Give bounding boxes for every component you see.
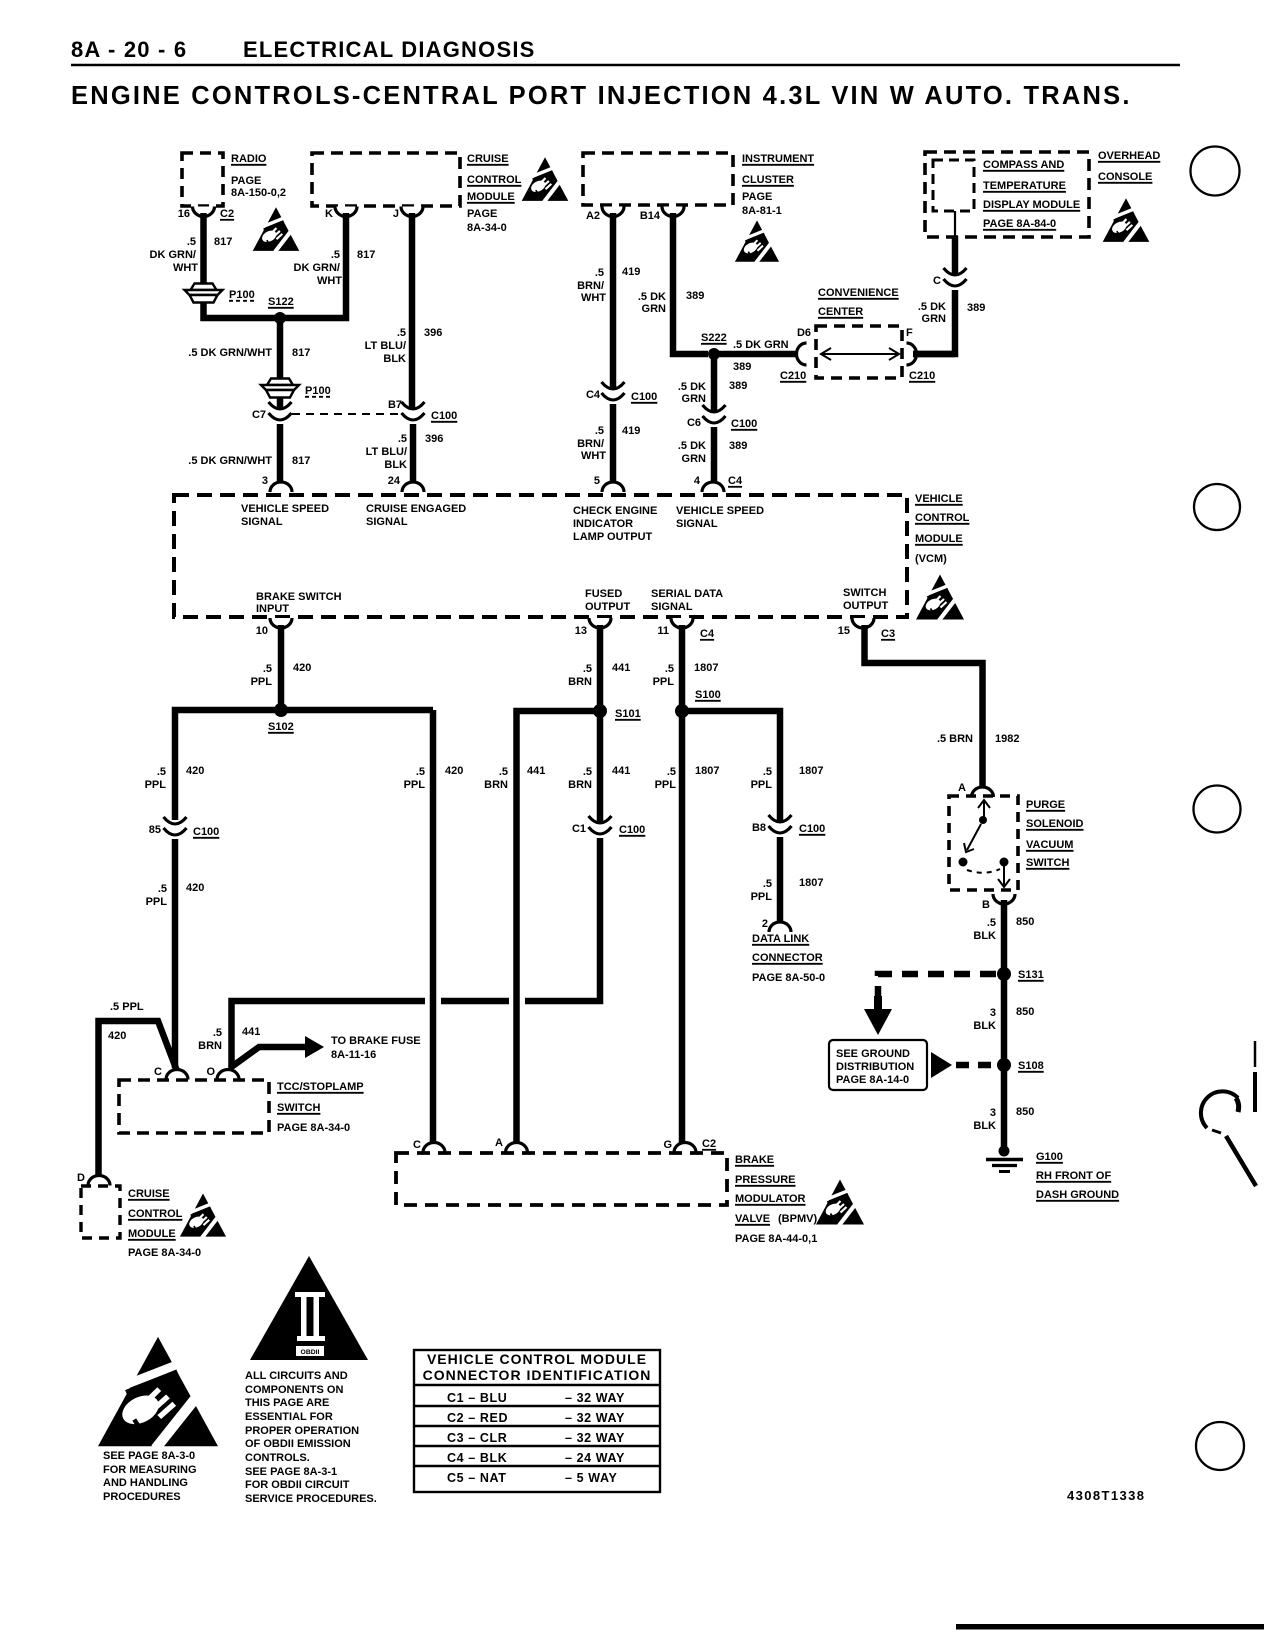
- wire label .5 PPL (S102 right leg): [404, 766, 426, 791]
- svg-text:PPL: PPL: [404, 779, 426, 791]
- svg-text:3: 3: [990, 1007, 996, 1019]
- VCM pin 15 cup: [852, 618, 874, 628]
- svg-text:.5: .5: [583, 766, 592, 778]
- table title: [423, 1351, 652, 1383]
- svg-text:B7: B7: [388, 399, 402, 411]
- svg-text:16: 16: [178, 208, 190, 220]
- svg-text:10: 10: [256, 625, 268, 637]
- svg-text:DK GRN/: DK GRN/: [150, 249, 196, 261]
- svg-text:MODULATOR: MODULATOR: [735, 1193, 806, 1205]
- svg-text:2: 2: [762, 918, 768, 930]
- svg-text:SOLENOID: SOLENOID: [1026, 818, 1084, 830]
- cruise control module box (top): [312, 153, 460, 206]
- svg-text:420: 420: [186, 765, 204, 777]
- svg-text:C7: C7: [252, 409, 266, 421]
- svg-text:BLK: BLK: [383, 353, 406, 365]
- svg-text:15: 15: [838, 625, 850, 637]
- wire label .5 DK GRN/WHT (pin K drop): [294, 249, 343, 287]
- svg-text:BLK: BLK: [973, 1020, 996, 1032]
- svg-text:BLK: BLK: [973, 930, 996, 942]
- punch hole circle 3: [1194, 786, 1241, 833]
- VCM label fused output: [585, 588, 631, 613]
- dashed branch from S131 to ground distribution arrow: [878, 974, 996, 1000]
- svg-text:– 5 WAY: – 5 WAY: [565, 1471, 617, 1485]
- svg-text:850: 850: [1016, 1006, 1034, 1018]
- svg-text:C1: C1: [572, 823, 586, 835]
- wire label .5 BRN/WHT (above pin 5): [577, 425, 606, 462]
- svg-text:C: C: [154, 1066, 162, 1078]
- purge switch internal left contact dot: [959, 858, 968, 867]
- svg-text:CRUISE: CRUISE: [467, 153, 509, 165]
- wire from compass module to connector C: [952, 236, 959, 276]
- svg-text:CRUISE: CRUISE: [128, 1188, 170, 1200]
- svg-text:DASH GROUND: DASH GROUND: [1036, 1189, 1119, 1201]
- wire 396 from pin J down to B7: [409, 213, 416, 410]
- BPMV labels: [735, 1154, 817, 1245]
- wire 1807 from S100 down to BPMV pin G: [679, 711, 686, 1145]
- wire 441 from VCM pin 13 to splice S101: [597, 625, 604, 711]
- dashed link from callout to S108: [956, 1062, 996, 1069]
- ESD symbol near BPMV: [816, 1180, 864, 1226]
- svg-text:850: 850: [1016, 1106, 1034, 1118]
- pin B14 connector cup (instrument cluster): [662, 207, 684, 217]
- svg-text:PAGE 8A-50-0: PAGE 8A-50-0: [752, 972, 825, 984]
- wire label .5 PPL (S100 down leg): [655, 766, 677, 791]
- svg-text:SWITCH: SWITCH: [277, 1102, 320, 1114]
- svg-text:C2 – RED: C2 – RED: [447, 1411, 508, 1425]
- svg-text:FOR OBDII CIRCUIT: FOR OBDII CIRCUIT: [245, 1479, 350, 1491]
- pin D6 connector cup (convenience center): [797, 343, 807, 365]
- S100 right leg to data link drop: [682, 711, 780, 823]
- svg-text:.5: .5: [499, 766, 508, 778]
- svg-text:.5: .5: [667, 766, 676, 778]
- purge switch internal upper contact dot: [979, 816, 987, 824]
- svg-text:MODULE: MODULE: [915, 533, 963, 545]
- svg-text:BLK: BLK: [384, 459, 407, 471]
- pin F connector cup (convenience center): [907, 343, 917, 365]
- ESD symbol below instrument cluster: [735, 220, 779, 262]
- svg-text:C210: C210: [780, 370, 806, 382]
- svg-text:C100: C100: [193, 826, 219, 838]
- wire 850 from S108 to ground G100: [1001, 1065, 1008, 1150]
- svg-text:389: 389: [729, 440, 747, 452]
- table row C1: [447, 1391, 625, 1405]
- TCC/stoplamp switch labels: [277, 1081, 364, 1134]
- data link connector pin 2 bell: [769, 922, 791, 932]
- VCM pin 5 bell: [602, 482, 624, 492]
- svg-text:C100: C100: [431, 410, 457, 422]
- ESD symbol in VCM: [916, 575, 964, 621]
- wire 817 from S122 down to P100 (second): [277, 318, 284, 379]
- svg-text:CONTROL: CONTROL: [128, 1208, 183, 1220]
- BPMV pin G bell: [674, 1143, 696, 1153]
- svg-text:WHT: WHT: [581, 292, 606, 304]
- svg-text:GRN: GRN: [922, 313, 947, 325]
- svg-text:PPL: PPL: [655, 779, 677, 791]
- table row C5: [447, 1471, 617, 1485]
- wire 396 from B7 to VCM pin 24: [410, 424, 417, 486]
- svg-text:BRN: BRN: [198, 1040, 222, 1052]
- svg-text:PPL: PPL: [653, 676, 675, 688]
- svg-text:B8: B8: [752, 822, 766, 834]
- svg-text:PPL: PPL: [251, 676, 273, 688]
- svg-text:85: 85: [149, 824, 161, 836]
- purge switch internal dashed throw arc: [967, 869, 1000, 873]
- svg-text:OVERHEAD: OVERHEAD: [1098, 150, 1160, 162]
- wire 441 horizontal hop segment 3 and drop to pin O: [232, 1001, 426, 1068]
- svg-text:VACUUM: VACUUM: [1026, 839, 1073, 851]
- TCC/stoplamp switch box: [119, 1080, 269, 1133]
- svg-text:.5 DK: .5 DK: [678, 381, 706, 393]
- svg-text:C2: C2: [220, 208, 234, 220]
- svg-text:LT BLU/: LT BLU/: [365, 340, 406, 352]
- wire 419 from C4 to VCM pin 5: [610, 404, 617, 486]
- svg-text:S122: S122: [268, 296, 294, 308]
- svg-text:441: 441: [527, 765, 545, 777]
- svg-text:PAGE: PAGE: [467, 208, 497, 220]
- TCC pin C bell: [166, 1070, 188, 1080]
- wire 389 from S222 to convenience center pin D6: [714, 351, 800, 358]
- svg-text:PAGE 8A-34-0: PAGE 8A-34-0: [128, 1247, 201, 1259]
- compass module labels: [983, 159, 1080, 230]
- pass-through grommet P100 (second): [261, 379, 299, 398]
- pin J connector cup (cruise module): [401, 207, 423, 217]
- svg-text:VALVE: VALVE: [735, 1213, 770, 1225]
- wire 389 from connector C down to F corner: [913, 290, 955, 354]
- svg-text:8A-81-1: 8A-81-1: [742, 205, 782, 217]
- wire 389 from S222 down to C6: [711, 354, 718, 413]
- svg-text:S131: S131: [1018, 969, 1044, 981]
- svg-text:TEMPERATURE: TEMPERATURE: [983, 180, 1066, 192]
- VCM label check engine indicator lamp output: [573, 505, 657, 543]
- svg-text:VEHICLE CONTROL MODULE: VEHICLE CONTROL MODULE: [427, 1351, 647, 1367]
- splice S122: [274, 312, 286, 324]
- purge switch pin A bell: [972, 787, 994, 797]
- svg-text:WHT: WHT: [173, 262, 198, 274]
- svg-text:C2: C2: [702, 1138, 716, 1150]
- svg-text:.5: .5: [595, 267, 604, 279]
- svg-text:CONSOLE: CONSOLE: [1098, 171, 1152, 183]
- wire 420 branch from TCC pin C to cruise module pin D: [99, 1021, 178, 1178]
- wire label .5 PPL (pin 10 drop): [251, 663, 273, 688]
- svg-text:C3: C3: [881, 628, 895, 640]
- wire 817 from C7 to VCM pin 3: [277, 424, 284, 486]
- wire label .5 BRN (below S101): [568, 766, 592, 791]
- svg-text:A2: A2: [586, 210, 600, 222]
- svg-text:8A-150-0,2: 8A-150-0,2: [231, 187, 286, 199]
- svg-text:OUTPUT: OUTPUT: [585, 601, 631, 613]
- in-line connector C1 of C100: [589, 816, 612, 834]
- ESD symbol near cruise module: [522, 157, 569, 202]
- splice S222: [708, 348, 720, 360]
- splice S102: [274, 703, 288, 717]
- svg-text:G100: G100: [1036, 1151, 1063, 1163]
- data link connector labels: [752, 933, 825, 984]
- svg-text:INSTRUMENT: INSTRUMENT: [742, 153, 814, 165]
- wire 420 from VCM pin 10 to splice S102: [278, 625, 285, 710]
- svg-text:PAGE: PAGE: [742, 191, 772, 203]
- svg-text:DISTRIBUTION: DISTRIBUTION: [836, 1061, 914, 1073]
- svg-text:C: C: [933, 275, 941, 287]
- wire label .5 PPL (data link drop upper): [751, 766, 773, 791]
- see ground distribution text: [836, 1048, 914, 1086]
- svg-text:.5: .5: [595, 425, 604, 437]
- svg-text:P100: P100: [305, 385, 331, 397]
- svg-text:OF OBDII EMISSION: OF OBDII EMISSION: [245, 1438, 351, 1450]
- wire 441 horizontal hop segment 2: [441, 998, 509, 1005]
- bottom page edge line: [956, 1624, 1264, 1630]
- svg-text:F: F: [906, 327, 913, 339]
- wire label .5 LT BLU/BLK (above pin 24): [366, 433, 407, 471]
- svg-text:SIGNAL: SIGNAL: [366, 516, 408, 528]
- BPMV pin C bell: [423, 1143, 445, 1153]
- VCM label vehicle speed signal (pin 4): [676, 505, 764, 530]
- splice S108: [997, 1058, 1011, 1072]
- svg-text:BRN: BRN: [568, 779, 592, 791]
- svg-text:CONNECTOR: CONNECTOR: [752, 952, 823, 964]
- svg-text:C6: C6: [687, 417, 701, 429]
- pin 16 connector cup (radio): [193, 207, 215, 217]
- svg-text:C4 – BLK: C4 – BLK: [447, 1451, 507, 1465]
- svg-text:1807: 1807: [695, 765, 719, 777]
- svg-text:(VCM): (VCM): [915, 553, 947, 565]
- in-line connector C7: [269, 402, 292, 420]
- svg-text:.5: .5: [331, 249, 340, 261]
- compass and temperature display module outer box: [925, 152, 1089, 237]
- svg-text:PPL: PPL: [146, 896, 168, 908]
- svg-text:.5 DK GRN: .5 DK GRN: [733, 339, 789, 351]
- svg-text:– 24 WAY: – 24 WAY: [565, 1451, 625, 1465]
- in-line connector B8 of C100: [769, 815, 792, 833]
- svg-text:PAGE 8A-34-0: PAGE 8A-34-0: [277, 1122, 350, 1134]
- VCM label serial data signal: [651, 588, 723, 613]
- convenience center labels: [818, 287, 899, 318]
- svg-text:INDICATOR: INDICATOR: [573, 518, 633, 530]
- convenience center box: [816, 326, 902, 378]
- svg-text:CONTROL: CONTROL: [915, 512, 970, 524]
- svg-text:TO BRAKE FUSE: TO BRAKE FUSE: [331, 1035, 421, 1047]
- svg-text:J: J: [393, 208, 399, 220]
- wire 420 from C100-85 down to TCC pin C: [172, 839, 179, 1068]
- svg-text:TCC/STOPLAMP: TCC/STOPLAMP: [277, 1081, 364, 1093]
- svg-text:C5 – NAT: C5 – NAT: [447, 1471, 506, 1485]
- table row C2: [447, 1411, 625, 1425]
- svg-text:817: 817: [214, 236, 232, 248]
- svg-text:DATA LINK: DATA LINK: [752, 933, 809, 945]
- punch hole circle 1: [1191, 147, 1240, 196]
- svg-text:PAGE 8A-84-0: PAGE 8A-84-0: [983, 218, 1056, 230]
- svg-text:COMPASS AND: COMPASS AND: [983, 159, 1064, 171]
- purge switch internal right contact dot: [1000, 858, 1009, 867]
- ground distribution arrow shaft: [874, 996, 882, 1011]
- svg-text:B: B: [982, 899, 990, 911]
- scan artifact squiggle: [1201, 1041, 1256, 1186]
- ESD handling note text: [103, 1450, 197, 1503]
- wire label 3 BLK (S131 to S108): [973, 1007, 996, 1032]
- svg-text:.5: .5: [213, 1027, 222, 1039]
- purge switch internal throw arm with arrowhead: [964, 824, 981, 852]
- svg-text:419: 419: [622, 425, 640, 437]
- svg-text:C4: C4: [700, 628, 715, 640]
- svg-text:441: 441: [612, 765, 630, 777]
- svg-text:PPL: PPL: [751, 891, 773, 903]
- wire 1807 from B8 to data link connector pin 2: [777, 837, 784, 925]
- instrument cluster box: [583, 153, 733, 205]
- svg-text:.5 PPL: .5 PPL: [110, 1001, 144, 1013]
- svg-text:(BPMV): (BPMV): [778, 1213, 817, 1225]
- svg-text:C4: C4: [586, 389, 601, 401]
- svg-text:1807: 1807: [799, 765, 823, 777]
- see ground distribution callout box: [829, 1040, 927, 1090]
- svg-text:CONVENIENCE: CONVENIENCE: [818, 287, 899, 299]
- radio labels: [231, 153, 286, 199]
- svg-text:A: A: [495, 1137, 503, 1149]
- svg-text:.5 DK GRN/WHT: .5 DK GRN/WHT: [188, 347, 272, 359]
- punch hole circle 2: [1194, 484, 1240, 530]
- svg-text:420: 420: [186, 882, 204, 894]
- wire 850 from S131 to S108: [1001, 974, 1008, 1065]
- svg-text:FOR MEASURING: FOR MEASURING: [103, 1464, 197, 1476]
- vehicle control module (VCM) box: [174, 495, 907, 617]
- svg-text:C100: C100: [799, 823, 825, 835]
- svg-text:SEE PAGE 8A-3-1: SEE PAGE 8A-3-1: [245, 1466, 337, 1478]
- VCM label vehicle speed signal (pin 3): [241, 503, 329, 528]
- S101 left leg down to BPMV pin A: [517, 711, 601, 1145]
- svg-text:DISPLAY MODULE: DISPLAY MODULE: [983, 199, 1080, 211]
- svg-text:817: 817: [292, 347, 310, 359]
- VCM pin 13 cup: [589, 618, 611, 628]
- svg-text:CONTROL: CONTROL: [467, 174, 522, 186]
- ESD symbol below radio: [253, 207, 300, 252]
- svg-text:GRN: GRN: [642, 303, 667, 315]
- brake fuse arrow head: [305, 1036, 324, 1058]
- svg-text:3: 3: [262, 475, 268, 487]
- svg-text:THIS PAGE ARE: THIS PAGE ARE: [245, 1397, 329, 1409]
- svg-text:389: 389: [729, 380, 747, 392]
- wire label .5 DK GRN (above pin 4): [678, 440, 706, 465]
- svg-text:S222: S222: [701, 332, 727, 344]
- wire label .5 LT BLU/BLK (pin J drop): [365, 327, 406, 365]
- svg-text:4: 4: [694, 475, 701, 487]
- svg-text:CHECK ENGINE: CHECK ENGINE: [573, 505, 657, 517]
- in-line connector C6 of C100: [703, 405, 726, 423]
- svg-text:3: 3: [990, 1107, 996, 1119]
- wire 1982 from VCM pin 15 to purge switch pin A: [865, 625, 983, 786]
- svg-text:ALL CIRCUITS AND: ALL CIRCUITS AND: [245, 1370, 348, 1382]
- svg-text:MODULE: MODULE: [128, 1228, 176, 1240]
- VCM pin 24 bell: [402, 482, 424, 492]
- callout pointer triangle: [931, 1052, 952, 1078]
- VCM labels right: [915, 493, 970, 565]
- ESD symbol near bottom cruise module: [180, 1193, 226, 1237]
- svg-text:A: A: [958, 782, 966, 794]
- svg-text:.5 DK: .5 DK: [638, 291, 666, 303]
- svg-text:P100: P100: [229, 289, 255, 301]
- wire label .5 PPL (data link drop lower): [751, 878, 773, 903]
- svg-text:S108: S108: [1018, 1060, 1044, 1072]
- cruise control module labels (bottom): [128, 1188, 201, 1259]
- svg-text:.5: .5: [763, 766, 772, 778]
- pin A2 connector cup (instrument cluster): [602, 207, 624, 217]
- svg-text:PPL: PPL: [751, 779, 773, 791]
- svg-text:420: 420: [108, 1030, 126, 1042]
- svg-text:13: 13: [575, 625, 587, 637]
- svg-text:VEHICLE: VEHICLE: [915, 493, 963, 505]
- wire 1807 from VCM pin 11 to splice S100: [679, 625, 686, 711]
- svg-text:S100: S100: [695, 689, 721, 701]
- svg-text:8A - 20 - 6: 8A - 20 - 6: [71, 37, 187, 62]
- svg-text:396: 396: [425, 433, 443, 445]
- svg-text:.5 DK: .5 DK: [678, 440, 706, 452]
- svg-text:C4: C4: [728, 475, 743, 487]
- instrument cluster labels: [742, 153, 814, 217]
- svg-text:BRAKE: BRAKE: [735, 1154, 774, 1166]
- svg-text:PRESSURE: PRESSURE: [735, 1174, 796, 1186]
- svg-text:1807: 1807: [694, 662, 718, 674]
- wire label .5 DK GRN (F drop): [918, 301, 946, 325]
- wire label .5 PPL (pin 11 drop): [653, 663, 675, 688]
- svg-text:.5: .5: [157, 766, 166, 778]
- svg-text:SERVICE PROCEDURES.: SERVICE PROCEDURES.: [245, 1493, 377, 1505]
- svg-text:.5: .5: [398, 433, 407, 445]
- svg-text:850: 850: [1016, 916, 1034, 928]
- svg-text:BRN: BRN: [484, 779, 508, 791]
- svg-text:.5: .5: [187, 236, 196, 248]
- svg-text:SEE GROUND: SEE GROUND: [836, 1048, 910, 1060]
- svg-text:817: 817: [357, 249, 375, 261]
- svg-text:817: 817: [292, 455, 310, 467]
- G100 labels: [1036, 1151, 1119, 1201]
- svg-text:VEHICLE SPEED: VEHICLE SPEED: [241, 503, 329, 515]
- svg-text:SIGNAL: SIGNAL: [651, 601, 693, 613]
- svg-text:S101: S101: [615, 708, 641, 720]
- svg-text:389: 389: [967, 302, 985, 314]
- OBDII warning triangle: [250, 1256, 368, 1360]
- punch hole circle 4: [1196, 1422, 1244, 1470]
- svg-text:COMPONENTS ON: COMPONENTS ON: [245, 1384, 343, 1396]
- VCM label brake switch input: [256, 591, 342, 615]
- svg-text:SIGNAL: SIGNAL: [241, 516, 283, 528]
- splice S131: [997, 967, 1011, 981]
- svg-text:RH FRONT OF: RH FRONT OF: [1036, 1170, 1111, 1182]
- svg-text:420: 420: [445, 765, 463, 777]
- svg-text:419: 419: [622, 266, 640, 278]
- svg-text:C: C: [413, 1139, 421, 1151]
- ESD symbol below overhead console: [1103, 198, 1150, 243]
- svg-text:PAGE 8A-14-0: PAGE 8A-14-0: [836, 1074, 909, 1086]
- overhead console labels: [1098, 150, 1160, 183]
- wire 389 from pin B14 to splice S222: [673, 213, 708, 354]
- svg-text:OBDII: OBDII: [301, 1349, 320, 1356]
- svg-text:1807: 1807: [799, 877, 823, 889]
- svg-text:O: O: [206, 1066, 215, 1078]
- svg-text:441: 441: [242, 1026, 260, 1038]
- svg-text:PURGE: PURGE: [1026, 799, 1065, 811]
- svg-text:LT BLU/: LT BLU/: [366, 446, 407, 458]
- svg-text:1982: 1982: [995, 733, 1019, 745]
- branch from pin O to brake fuse arrow: [230, 1047, 306, 1068]
- wire label .5 DK GRN/WHT (radio drop): [150, 236, 199, 274]
- svg-text:SWITCH: SWITCH: [1026, 857, 1069, 869]
- svg-text:.5 DK GRN/WHT: .5 DK GRN/WHT: [188, 455, 272, 467]
- svg-text:441: 441: [612, 662, 630, 674]
- purge switch internal arrow down: [998, 866, 1010, 887]
- svg-text:.5: .5: [763, 878, 772, 890]
- wire 389 from F to overhead console drop: [913, 351, 955, 358]
- svg-text:CLUSTER: CLUSTER: [742, 174, 794, 186]
- svg-text:S102: S102: [268, 721, 294, 733]
- svg-text:.5: .5: [987, 917, 996, 929]
